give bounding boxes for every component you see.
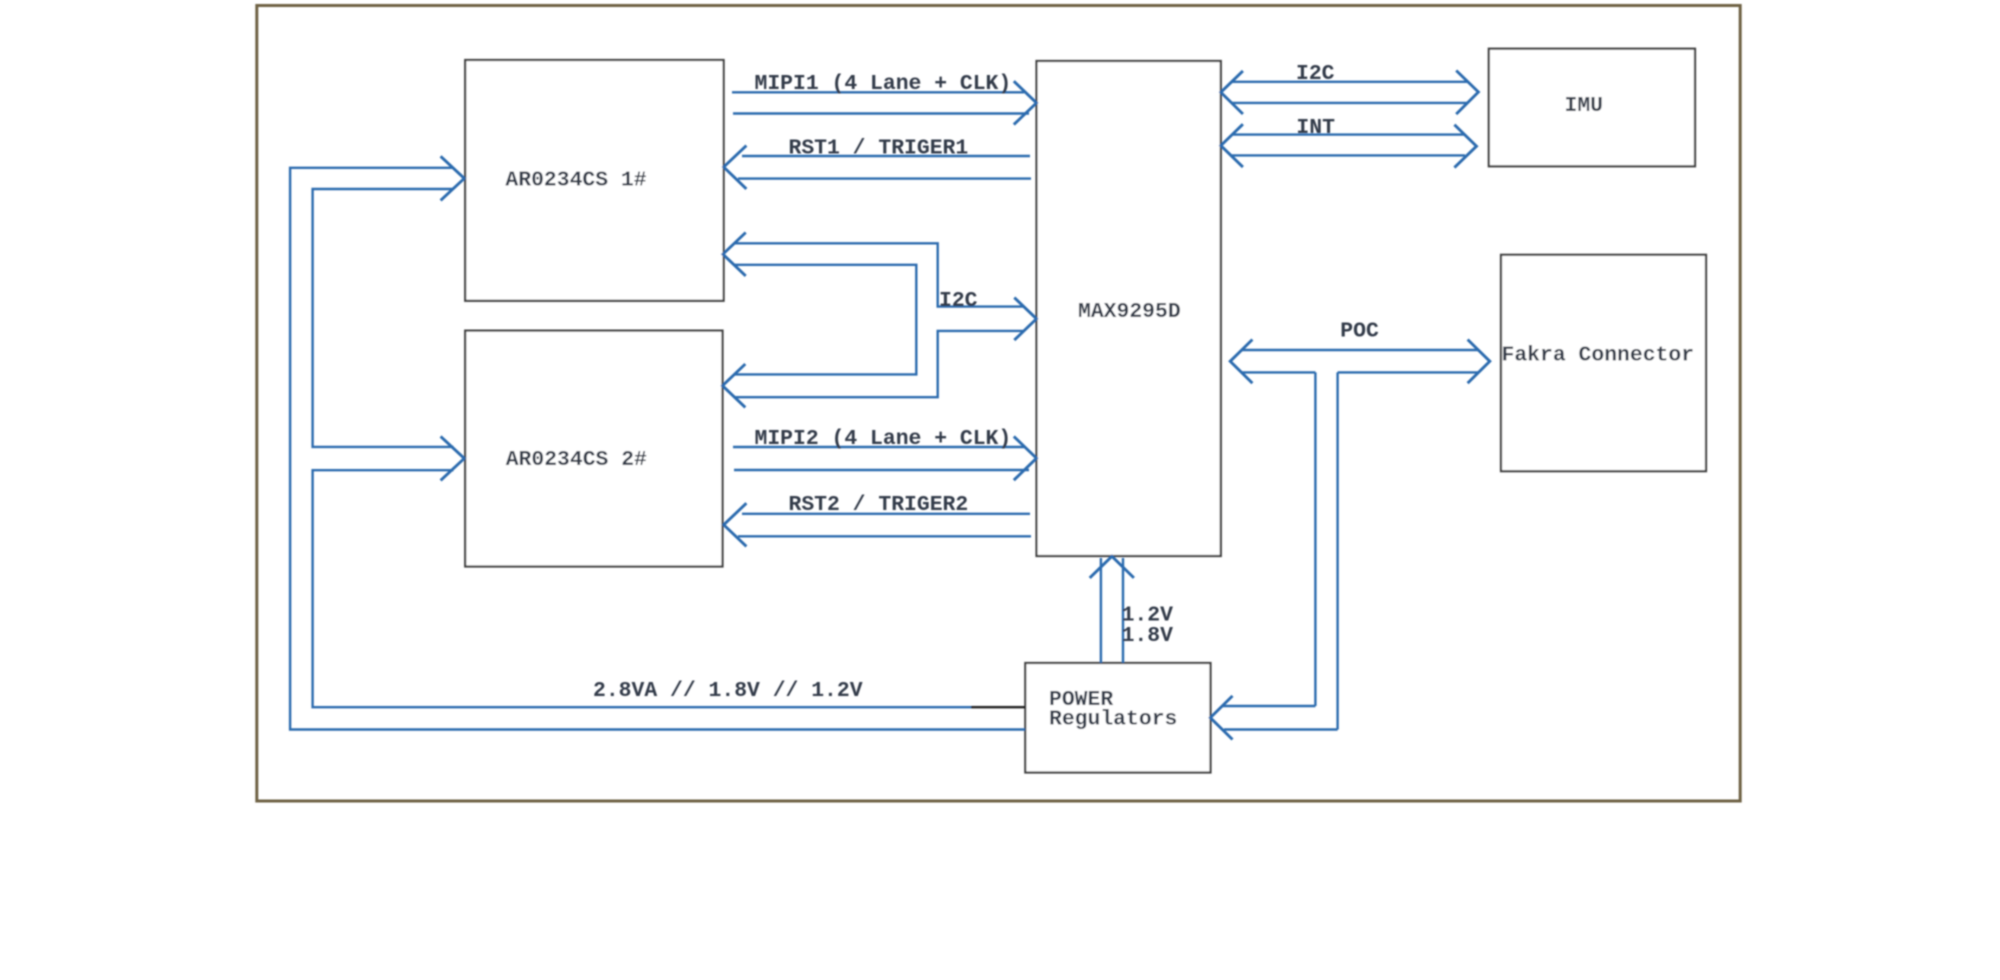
svg-text:IMU: IMU <box>1565 94 1604 118</box>
svg-text:2.8VA // 1.8V // 1.2V: 2.8VA // 1.8V // 1.2V <box>593 679 863 703</box>
bus RST2/TRIGER2 <box>724 503 1031 546</box>
wire POC tee down <box>1315 372 1337 729</box>
block MAX9295D <box>1037 61 1221 556</box>
svg-text:POC: POC <box>1340 320 1379 344</box>
wire black segment into POWER Regulators <box>971 706 1025 708</box>
bus MIPI1 <box>732 81 1037 124</box>
svg-text:MIPI2 (4 Lane + CLK): MIPI2 (4 Lane + CLK) <box>755 427 1012 451</box>
bus RST1/TRIGER1 <box>724 146 1031 189</box>
bus 1.2V/1.8V up into MAX9295D <box>1090 556 1134 663</box>
svg-text:RST2 / TRIGER2: RST2 / TRIGER2 <box>789 493 969 517</box>
svg-text:AR0234CS 2#: AR0234CS 2# <box>506 448 647 472</box>
svg-text:RST1 / TRIGER1: RST1 / TRIGER1 <box>789 137 969 161</box>
block AR0234CS 2# <box>465 331 722 567</box>
border frame <box>257 6 1740 802</box>
svg-text:Fakra Connector: Fakra Connector <box>1502 344 1695 368</box>
block AR0234CS 1# <box>465 60 723 301</box>
svg-text:AR0234CS 1#: AR0234CS 1# <box>505 169 646 193</box>
block Fakra Connector <box>1501 255 1706 471</box>
svg-text:I2C: I2C <box>939 289 978 313</box>
bus MIPI2 <box>733 436 1037 480</box>
svg-text:MIPI1 (4 Lane + CLK): MIPI1 (4 Lane + CLK) <box>755 72 1012 96</box>
bus POC <box>1230 340 1490 384</box>
bus I2C sensors loop <box>723 233 1037 408</box>
svg-text:INT: INT <box>1296 116 1335 140</box>
bus power rail 2.8VA/1.8V/1.2V <box>290 156 1025 729</box>
bus POC into POWER Regulators <box>1210 696 1337 740</box>
svg-text:1.8V: 1.8V <box>1122 624 1174 648</box>
bus INT <box>1221 124 1477 167</box>
svg-text:MAX9295D: MAX9295D <box>1078 300 1181 324</box>
block POWER Regulators <box>1025 663 1210 773</box>
svg-text:Regulators: Regulators <box>1049 708 1177 732</box>
bus I2C to IMU <box>1221 71 1479 115</box>
block IMU <box>1489 49 1695 167</box>
svg-text:I2C: I2C <box>1296 62 1335 86</box>
